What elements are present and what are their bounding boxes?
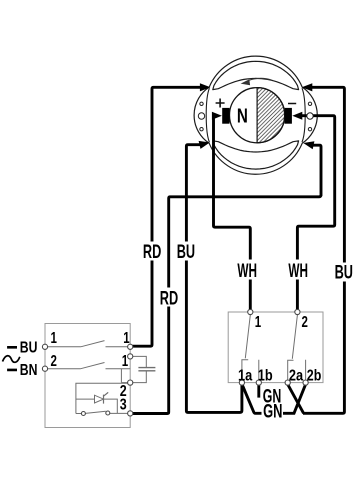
svg-text:1: 1 [122, 351, 129, 369]
svg-text:1: 1 [51, 328, 58, 346]
svg-text:1b: 1b [258, 367, 273, 385]
svg-text:WH: WH [288, 261, 308, 281]
svg-text:GN: GN [263, 401, 282, 422]
svg-text:BU: BU [20, 338, 38, 356]
svg-text:1a: 1a [238, 367, 253, 385]
svg-text:WH: WH [237, 261, 257, 281]
svg-text:2a: 2a [289, 367, 304, 385]
svg-text:2: 2 [302, 312, 309, 330]
svg-text:3: 3 [120, 396, 127, 414]
svg-text:N: N [237, 104, 248, 127]
svg-text:1: 1 [255, 312, 262, 330]
svg-text:2: 2 [51, 351, 58, 369]
svg-text:BN: BN [20, 361, 38, 379]
svg-text:2b: 2b [307, 367, 322, 385]
svg-text:RD: RD [160, 288, 178, 309]
svg-text:BU: BU [177, 241, 195, 262]
svg-text:BU: BU [335, 262, 353, 283]
svg-text:1: 1 [123, 328, 130, 346]
svg-text:RD: RD [143, 241, 161, 262]
